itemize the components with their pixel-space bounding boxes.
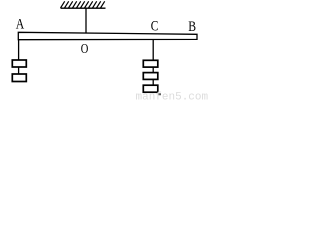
right weight 2 bbox=[143, 73, 158, 80]
left connector stub bbox=[18, 67, 20, 74]
pivot string O bbox=[85, 9, 87, 35]
svg-text:B: B bbox=[188, 17, 196, 34]
right string at C bbox=[152, 39, 154, 60]
watermark artifact dot bbox=[158, 93, 161, 95]
left weight 1 bbox=[12, 60, 26, 67]
right weight 3 bbox=[143, 85, 158, 92]
right weight 1 bbox=[143, 60, 158, 67]
svg-text:manfen5.com: manfen5.com bbox=[136, 92, 209, 101]
svg-text:C: C bbox=[151, 17, 159, 34]
left weight 2 bbox=[12, 74, 26, 82]
ceiling baseline bbox=[61, 7, 106, 9]
svg-text:A: A bbox=[16, 15, 25, 32]
left string at A bbox=[18, 40, 20, 60]
beam AB (lever) bbox=[18, 32, 197, 39]
right connector stub 1 bbox=[152, 67, 154, 73]
right connector stub 2 bbox=[152, 79, 154, 85]
ceiling hatch strokes bbox=[61, 1, 105, 8]
svg-text:O: O bbox=[81, 41, 89, 57]
